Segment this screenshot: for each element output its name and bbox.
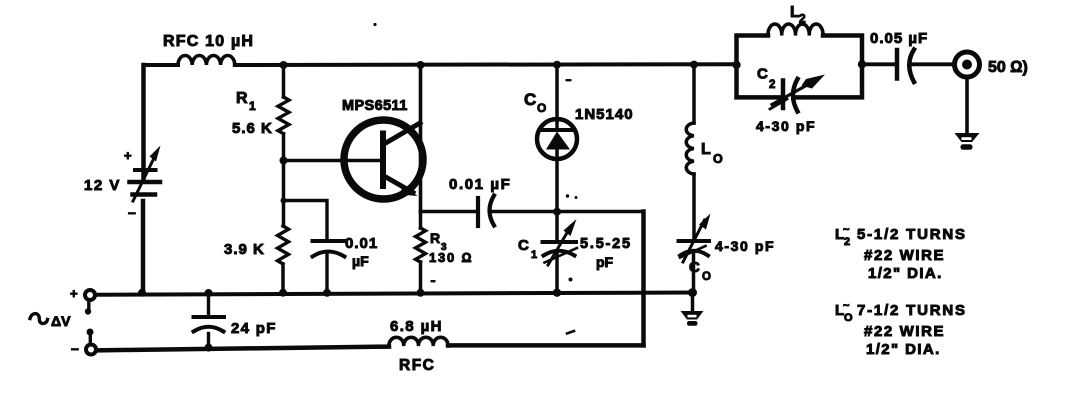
inductor RFC 6.8 uH <box>389 318 448 374</box>
svg-text:#22 WIRE: #22 WIRE <box>864 247 945 264</box>
svg-text:1N5140: 1N5140 <box>575 106 634 123</box>
node LO top junction <box>690 61 698 69</box>
svg-text:L: L <box>701 141 711 158</box>
capacitor CO 4-30 pF variable <box>679 174 776 293</box>
svg-text:7-1/2 TURNS: 7-1/2 TURNS <box>857 302 967 319</box>
terminal input upper <box>70 286 95 315</box>
svg-text:2: 2 <box>844 236 850 248</box>
capacitor 0.01 uF series <box>449 176 511 226</box>
svg-text:C: C <box>524 90 536 109</box>
node tank right junction <box>858 60 866 68</box>
wire left column lower <box>141 201 146 293</box>
tank circuit box L2 C2 <box>737 36 863 98</box>
node base junction <box>280 157 288 165</box>
svg-text:5.5-25: 5.5-25 <box>580 236 632 252</box>
svg-text:ΔV: ΔV <box>51 313 71 329</box>
svg-text:130 Ω: 130 Ω <box>429 250 473 265</box>
svg-text:12 V: 12 V <box>84 177 121 194</box>
wire top rail left segment <box>144 63 179 67</box>
note LO coil spec <box>835 300 967 358</box>
svg-text:6.8 µH: 6.8 µH <box>390 318 443 335</box>
wire top rail main segment <box>235 62 737 67</box>
svg-text:#22 WIRE: #22 WIRE <box>864 323 945 340</box>
node 3.9K bottom junction <box>279 289 287 297</box>
svg-text:RFC: RFC <box>399 357 435 374</box>
capacitor 0.01 uF bypass <box>313 235 379 269</box>
inductor LO <box>686 65 723 175</box>
node tank left junction <box>732 61 740 69</box>
svg-text:~: ~ <box>843 224 850 236</box>
resistor R3 130 ohm <box>416 212 474 266</box>
wire collector-emitter column <box>419 65 423 212</box>
svg-text:5-1/2 TURNS: 5-1/2 TURNS <box>857 226 967 243</box>
node collector top junction <box>417 61 425 69</box>
svg-text:C: C <box>689 259 700 276</box>
svg-text:RFC 10 µH: RFC 10 µH <box>163 33 254 50</box>
inductor L2 <box>768 4 823 36</box>
svg-text:+: + <box>124 148 132 163</box>
resistor 3.9K <box>224 226 289 264</box>
battery 12V variable source <box>84 146 161 221</box>
svg-text:R: R <box>430 230 440 246</box>
node emitter wire junction <box>553 208 561 216</box>
svg-text:O: O <box>537 101 546 115</box>
capacitor 24 pF <box>194 289 277 352</box>
transistor Q1 MPS6511 <box>342 98 423 199</box>
svg-text:4-30 pF: 4-30 pF <box>756 118 816 134</box>
svg-text:+: + <box>70 286 78 301</box>
terminal input lower <box>71 329 96 357</box>
connector output 50 ohm <box>955 52 1028 77</box>
svg-text:0.01 µF: 0.01 µF <box>449 176 511 193</box>
svg-text:2: 2 <box>769 79 775 91</box>
wire 0.01uF to right corner <box>493 210 644 214</box>
svg-text:pF: pF <box>596 254 614 270</box>
node varactor top junction <box>553 61 561 69</box>
svg-text:O: O <box>713 152 723 166</box>
svg-text:5.6 K: 5.6 K <box>232 120 273 137</box>
svg-text:50 Ω): 50 Ω) <box>988 59 1028 76</box>
wire lower rail left segment <box>99 347 390 351</box>
svg-text:–: – <box>128 204 136 220</box>
svg-text:O: O <box>702 271 711 283</box>
svg-text:O: O <box>844 312 853 324</box>
wire output to ground <box>965 78 969 134</box>
note L2 coil spec <box>835 224 967 282</box>
capacitor 0.05 uF <box>870 30 928 82</box>
wire bypass cap to bottom rail <box>325 253 328 293</box>
svg-text:1/2" DIA.: 1/2" DIA. <box>868 265 943 282</box>
svg-text:24 pF: 24 pF <box>231 320 277 337</box>
wire left column upper <box>141 65 146 178</box>
ground left <box>681 293 704 326</box>
node deltaV label <box>30 313 71 329</box>
wire base bypass branch <box>284 201 328 240</box>
capacitor C2 4-30 pF variable <box>756 66 825 135</box>
wire bottom rail <box>97 293 693 295</box>
inductor RFC 10 uH <box>163 33 254 65</box>
node bypass cap bottom junction <box>323 289 331 297</box>
capacitor C1 5.5-25 pF variable <box>518 212 632 293</box>
svg-text:C: C <box>518 237 529 254</box>
node bias branch <box>281 198 287 204</box>
svg-text:1: 1 <box>531 249 537 261</box>
svg-text:0.01: 0.01 <box>345 235 378 252</box>
node C1 bottom junction <box>553 289 561 297</box>
node battery bottom junction <box>138 289 146 297</box>
wire tank to output cap <box>862 62 897 66</box>
svg-text:2: 2 <box>799 12 806 26</box>
svg-text:~: ~ <box>843 300 850 312</box>
svg-text:3.9 K: 3.9 K <box>224 241 265 258</box>
svg-text:µF: µF <box>352 253 369 269</box>
wire 3.9K to bottom rail <box>281 264 285 293</box>
resistor R1 5.6K <box>232 65 289 137</box>
wire R3 to bottom rail <box>419 262 423 293</box>
svg-text:0.05 µF: 0.05 µF <box>870 30 928 47</box>
node R3 bottom junction <box>417 289 425 297</box>
wire right feedback down <box>641 212 646 346</box>
wire R1 column down to bottom rail <box>282 134 286 226</box>
wire emitter feed to 0.01uF <box>421 210 478 214</box>
svg-text:C: C <box>757 66 768 83</box>
wire lower rail right segment <box>448 343 644 348</box>
wire base <box>284 159 382 163</box>
stray scan specks <box>373 23 577 334</box>
wire varactor to C1 <box>555 150 559 212</box>
svg-text:MPS6511: MPS6511 <box>342 98 408 114</box>
node R1 top junction <box>280 61 288 69</box>
svg-text:1/2" DIA.: 1/2" DIA. <box>866 341 941 358</box>
wire cap to output connector <box>913 62 953 66</box>
svg-text:R: R <box>236 90 248 107</box>
svg-text:4-30 pF: 4-30 pF <box>715 238 775 254</box>
varactor diode CO 1N5140 <box>524 65 634 159</box>
svg-text:1: 1 <box>249 99 256 113</box>
ground right <box>955 133 980 150</box>
svg-text:–: – <box>71 340 79 356</box>
node ground junction bottom right <box>688 288 697 297</box>
